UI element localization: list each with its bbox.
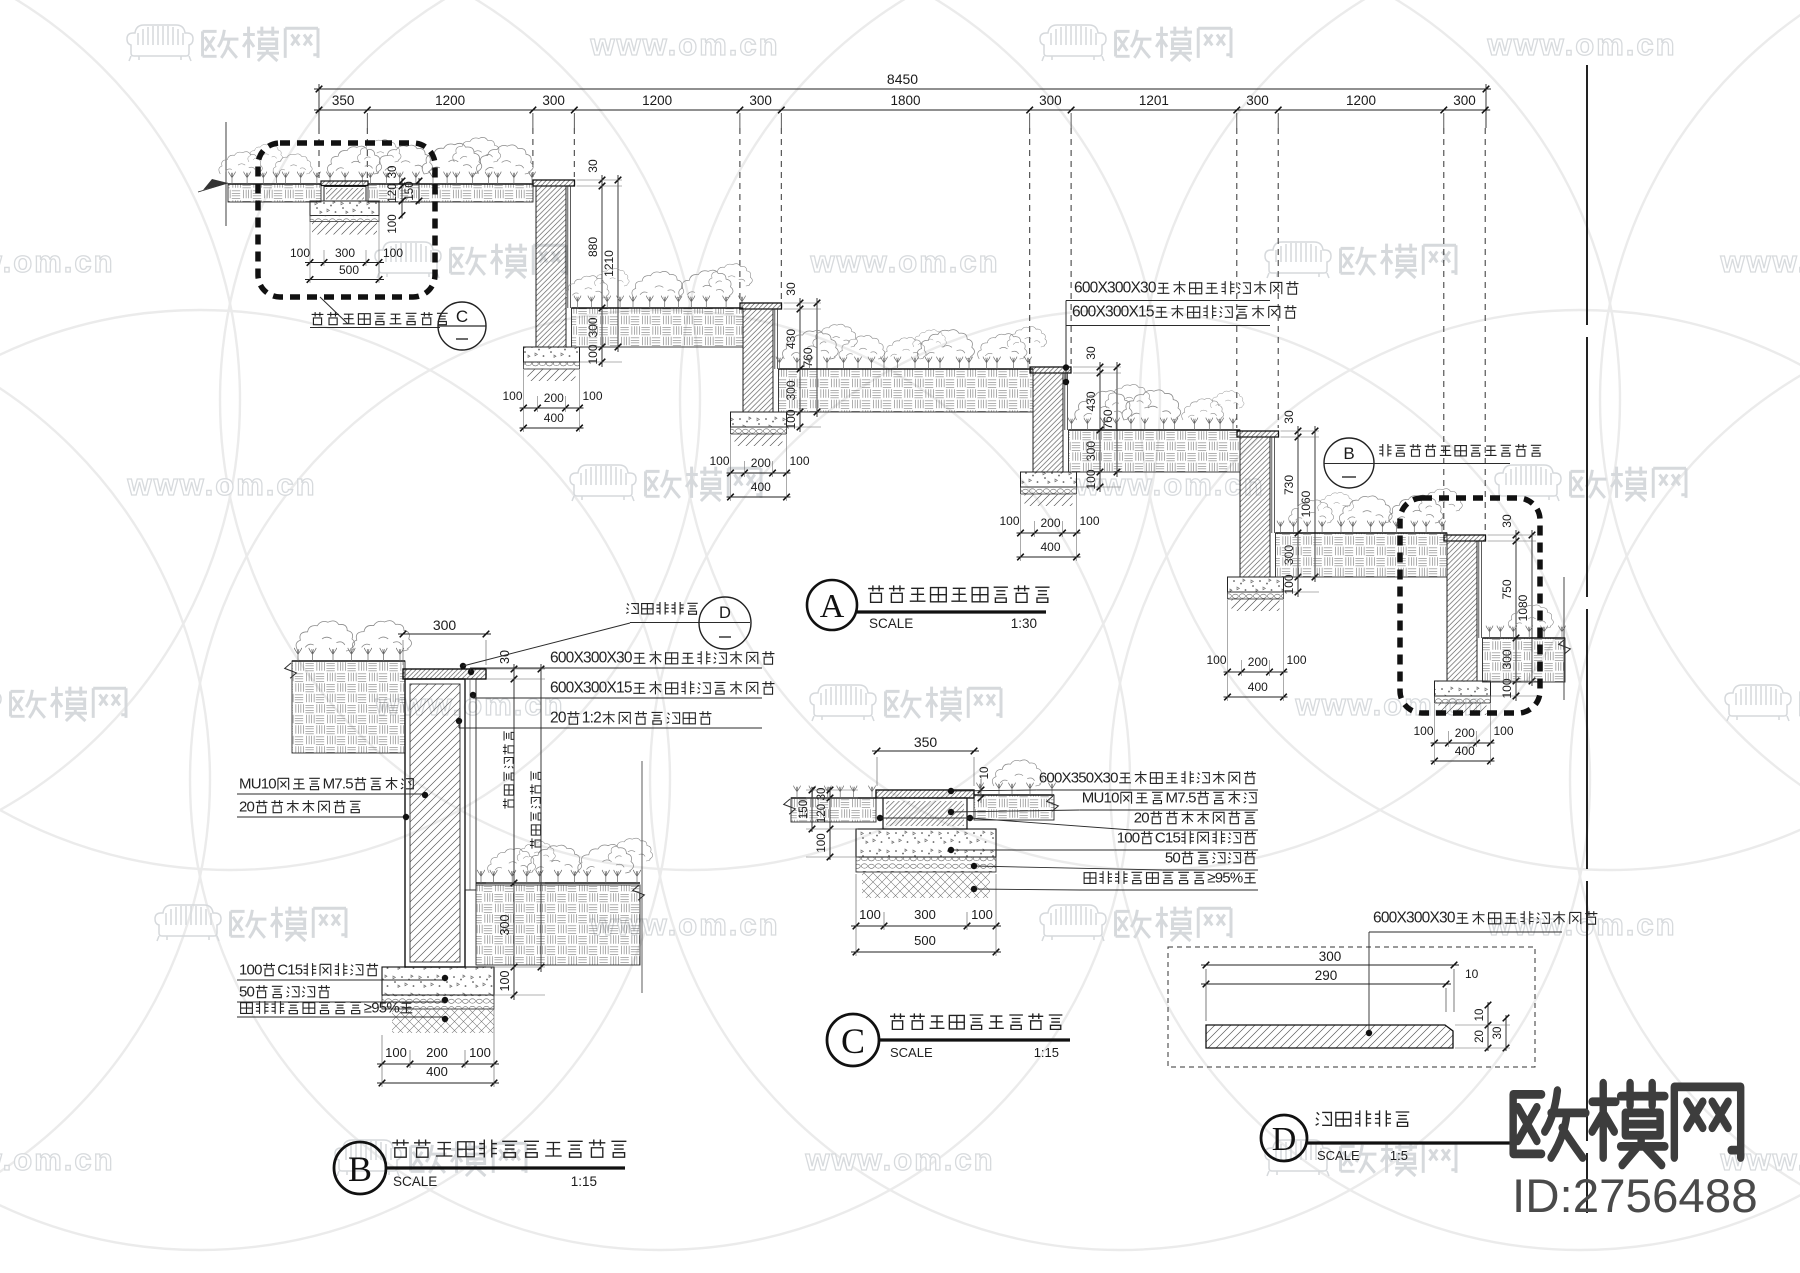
detail C second dot pair row3 [877,815,883,821]
title D [1261,1115,1307,1161]
svg-text:100: 100 [582,389,602,403]
svg-text:www.om.cn: www.om.cn [0,244,115,279]
svg-text:30: 30 [784,282,798,296]
detail B wall cap [403,669,486,679]
svg-text:ID:2756488: ID:2756488 [1512,1170,1758,1223]
svg-text:760: 760 [1101,409,1115,429]
detail B subgrade [392,1009,494,1033]
svg-text:D: D [1272,1121,1297,1158]
svg-text:30: 30 [498,650,512,664]
low wall body [324,187,366,202]
svg-text:MU10: MU10 [239,775,276,792]
planting soil [1483,638,1566,682]
svg-text:M7.5: M7.5 [1166,789,1197,806]
svg-text:880: 880 [586,237,600,257]
wall W1 gravel bed [524,362,580,369]
svg-text:C: C [841,1021,865,1061]
wall W3 facing layer [1064,373,1066,430]
detail D dashed frame [1168,947,1535,1067]
svg-text:100: 100 [971,907,993,922]
svg-text:730: 730 [1282,475,1296,495]
svg-text:www.om.cn: www.om.cn [1486,27,1676,62]
svg-text:300: 300 [1319,949,1342,964]
detail C bottom dims [851,925,1001,927]
dashed extension lines from dimension chain [318,128,320,179]
wall W2 facing layer [774,309,776,369]
svg-text:1200: 1200 [642,93,672,108]
svg-text:30: 30 [1084,346,1098,360]
svg-text:600X300X30: 600X300X30 [550,650,633,667]
wall W3 footing [1021,472,1077,487]
svg-text:1200: 1200 [435,93,465,108]
svg-text:100: 100 [1413,724,1433,738]
svg-text:SCALE: SCALE [869,616,913,631]
low wall footing [310,201,379,216]
svg-text:10: 10 [1465,967,1479,981]
svg-text:SCALE: SCALE [393,1174,437,1189]
detail C subgrade [862,872,990,898]
wall W5 gravel bed [1435,696,1491,703]
svg-text:600X300X30: 600X300X30 [1074,280,1157,297]
svg-text:1:30: 1:30 [1011,616,1037,631]
detail B gravel [382,995,494,1009]
svg-text:400: 400 [426,1064,448,1079]
svg-text:120: 120 [816,804,828,823]
low wall gravel [310,216,379,222]
detail D dim 300 [1201,964,1459,966]
dashed callout box B [1400,498,1540,713]
wall W3 subgrade [1025,494,1073,506]
svg-text:B: B [348,1149,372,1189]
detail B footing [382,967,494,995]
wall W3 cap [1030,367,1071,373]
wall W3 gravel bed [1021,487,1077,494]
svg-text:≥95%: ≥95% [1207,869,1243,886]
svg-text:20: 20 [550,710,567,727]
wall W2 footing [731,412,787,427]
svg-text:A: A [820,588,845,625]
wall W5 footing [1435,681,1491,696]
svg-text:300: 300 [433,617,457,633]
svg-text:120: 120 [387,183,399,202]
sheet border line [1586,65,1588,1213]
detail C left dims [829,787,831,860]
svg-text:300: 300 [914,907,936,922]
svg-text:600X350X30: 600X350X30 [1039,769,1118,786]
svg-text:500: 500 [914,933,936,948]
svg-text:50: 50 [239,983,255,1000]
svg-text:100: 100 [239,961,262,978]
detail B facing strip [465,679,476,890]
wall W3 footing dimensions [1017,532,1081,534]
svg-text:400: 400 [1455,744,1475,758]
wall W2 cap [740,303,782,309]
svg-text:350: 350 [914,734,938,750]
svg-text:C15: C15 [1155,829,1181,846]
wall W2 gravel bed [731,427,787,434]
planting soil [368,184,533,202]
svg-text:30: 30 [387,166,399,179]
svg-text:1200: 1200 [1346,93,1376,108]
wall W1 body [536,186,566,347]
callout C label leader [320,297,348,324]
svg-text:30: 30 [1500,514,1514,528]
planting soil [228,184,321,202]
detail D stone slab [1206,1025,1453,1048]
wall W3 body [1033,373,1063,472]
wall W5 cap [1444,535,1486,541]
wall W2 footing dimensions [727,472,791,474]
svg-text:M7.5: M7.5 [323,775,354,792]
svg-text:300: 300 [1039,93,1062,108]
svg-text:400: 400 [544,411,564,425]
wall W1 cap [533,180,575,186]
dimension chain segments [314,109,1490,111]
svg-text:100: 100 [1079,514,1099,528]
wall W4 subgrade [1232,599,1280,611]
svg-text:100: 100 [1493,724,1513,738]
dashed callout box C [258,143,435,297]
svg-text:C15: C15 [277,961,303,978]
svg-text:300: 300 [498,915,512,936]
grade reference mark [225,122,227,226]
svg-text:400: 400 [751,480,771,494]
svg-text:C: C [456,307,468,326]
svg-text:10: 10 [979,767,991,780]
svg-text:600X300X15: 600X300X15 [550,680,632,697]
callout C side dims [401,178,403,219]
svg-text:200: 200 [751,456,771,470]
wall W1 facing layer [567,186,569,308]
svg-text:D: D [719,604,731,622]
svg-text:150: 150 [798,800,810,819]
svg-text:400: 400 [1248,680,1268,694]
detail D dim 290 [1201,983,1451,985]
detail B wall body [405,679,465,967]
title B [334,1142,386,1194]
svg-text:1:15: 1:15 [1034,1045,1059,1060]
wall W5 subgrade [1439,703,1487,715]
svg-text:30: 30 [816,788,828,801]
svg-text:20: 20 [1474,1030,1486,1043]
svg-text:300: 300 [1246,93,1269,108]
low wall subgrade [312,222,377,235]
svg-text:1800: 1800 [890,93,920,108]
svg-text:100: 100 [387,214,399,233]
svg-text:www.om.cn: www.om.cn [1486,907,1676,942]
svg-text:400: 400 [1040,540,1060,554]
callout C bottom dims [305,262,384,264]
svg-text:100: 100 [1286,653,1306,667]
reference circle B with label [1324,438,1374,488]
wall W5 body [1447,541,1477,681]
svg-text:www.om.cn: www.om.cn [589,27,779,62]
svg-text:30: 30 [586,159,600,173]
svg-text:SCALE: SCALE [1317,1148,1360,1163]
svg-text:100: 100 [859,907,881,922]
svg-text:150: 150 [404,181,416,200]
svg-text:600X300X15: 600X300X15 [1072,304,1154,321]
wall W1 subgrade [528,369,576,381]
wall W5 footing dimensions [1431,742,1495,744]
svg-text:1:15: 1:15 [571,1174,597,1189]
wall W2 subgrade [735,434,783,446]
svg-text:100: 100 [498,971,512,992]
wall W4 facing layer [1271,437,1273,533]
svg-text:100: 100 [469,1045,491,1060]
svg-text:290: 290 [1315,968,1338,983]
detail B bottom dims [377,1063,499,1065]
title A [807,580,857,630]
svg-text:www.om.cn: www.om.cn [1719,244,1800,279]
detail C left ground [791,798,876,822]
svg-text:≥95%: ≥95% [364,999,400,1016]
svg-text:200: 200 [1040,516,1060,530]
svg-text:50: 50 [1165,849,1181,866]
wall W4 body [1240,437,1270,577]
detail B stone detail leader to circle D [460,663,466,669]
callout C reference circle [438,302,486,350]
wall W1 footing [524,347,580,362]
svg-text:1210: 1210 [602,250,616,277]
svg-text:www.om.cn: www.om.cn [809,244,999,279]
svg-text:100: 100 [789,454,809,468]
detail C right ground [974,795,1054,820]
svg-text:100: 100 [290,246,310,260]
wall W4 footing [1228,577,1284,592]
svg-text:20: 20 [239,798,255,815]
svg-text:B: B [1343,444,1354,463]
svg-text:30: 30 [1282,410,1296,424]
svg-text:8450: 8450 [887,71,918,87]
svg-text:1201: 1201 [1139,93,1169,108]
wall W1 footing dimensions [520,407,584,409]
svg-text:300: 300 [335,246,355,260]
detail D right dims [1487,1002,1489,1051]
svg-text:100: 100 [816,833,828,852]
planting soil [1069,430,1241,472]
svg-text:10: 10 [1474,1009,1486,1022]
wall W4 cap [1237,431,1279,437]
detail C gravel [856,857,996,872]
svg-text:SCALE: SCALE [890,1045,933,1060]
svg-text:20: 20 [1134,809,1150,826]
svg-text:100: 100 [502,389,522,403]
svg-text:350: 350 [332,93,355,108]
svg-text:200: 200 [544,391,564,405]
svg-text:100: 100 [709,454,729,468]
detail C footing [856,829,996,857]
dimension chain total 8450 [314,88,1491,90]
low wall inside callout C : cap [321,181,368,186]
svg-text:300: 300 [1453,93,1476,108]
big OuMoWang logo [1513,1083,1741,1165]
detail B left soil [292,661,405,753]
svg-text:www.om.cn: www.om.cn [804,1142,994,1177]
svg-text:1:2: 1:2 [582,710,601,727]
svg-text:www.om.cn: www.om.cn [126,467,316,502]
svg-text:200: 200 [1248,655,1268,669]
svg-text:100: 100 [999,514,1019,528]
planting soil [779,369,1034,412]
callout C label text [312,312,324,325]
svg-text:30: 30 [1492,1027,1504,1040]
detail B cap dim 300 [398,633,491,635]
wall W2 body [743,309,773,412]
planting soil [1276,533,1448,577]
svg-text:200: 200 [426,1045,448,1060]
svg-text:100: 100 [1206,653,1226,667]
svg-text:500: 500 [339,263,359,277]
svg-text:MU10: MU10 [1082,789,1119,806]
wall W5 facing layer [1478,541,1480,638]
title C [827,1014,879,1066]
svg-text:100: 100 [383,246,403,260]
detail C top dim 350 [872,750,979,752]
svg-text:600X300X30: 600X300X30 [1373,910,1456,927]
svg-text:200: 200 [1455,726,1475,740]
svg-text:750: 750 [1500,579,1514,599]
wall W4 gravel bed [1228,592,1284,599]
svg-text:300: 300 [542,93,565,108]
wall W4 footing dimensions [1224,671,1288,673]
svg-text:100: 100 [1117,829,1140,846]
svg-text:1:5: 1:5 [1390,1148,1408,1163]
detail C cap [876,790,974,798]
svg-text:300: 300 [749,93,772,108]
detail C wall body [883,798,967,829]
svg-text:100: 100 [385,1045,407,1060]
svg-text:www.om.cn: www.om.cn [0,1142,115,1177]
planting soil [572,308,744,347]
detail B right soil [476,885,640,965]
svg-text:1080: 1080 [1516,594,1530,621]
